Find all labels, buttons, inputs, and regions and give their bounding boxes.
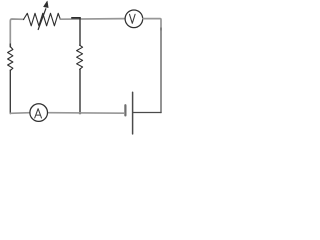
junction node (bottom of middle branch) (79, 112, 81, 114)
wire: bottom right segment (battery to right wire) (133, 112, 161, 114)
ammeter U_A circle (30, 104, 48, 122)
resistor R_left (vertical zigzag on left branch) (8, 47, 13, 71)
voltmeter label V (130, 14, 136, 23)
rheostat arrow shaft (38, 9, 46, 30)
wire: bottom left segment (corner to ammeter) (10, 112, 30, 115)
wire: middle branch vertical lower (dark) (79, 69, 81, 113)
rheostat arrow head (44, 1, 49, 8)
rheostat zigzag (variable resistor, top) (24, 13, 61, 25)
wire: voltmeter right lead to top-right corner (143, 19, 161, 30)
resistor R_mid (vertical zigzag on middle branch) (77, 45, 83, 69)
wire: middle branch vertical upper (dark) (79, 18, 81, 45)
wire: top middle segment (rheostat to voltmeter) (60, 18, 125, 21)
wire: right vertical (160, 28, 162, 113)
junction node (top, dark tick) (72, 17, 80, 19)
wire: bottom middle segment (ammeter to battery) (48, 112, 125, 115)
battery cell: long plate (positive) (132, 92, 134, 134)
ammeter label A (35, 109, 42, 118)
wire: left vertical upper (gray) with top-left corner (10, 19, 23, 46)
voltmeter U_V circle (125, 10, 143, 28)
battery cell: short plate (negative) (124, 105, 126, 115)
wire: left vertical lower (dark) (9, 44, 11, 114)
